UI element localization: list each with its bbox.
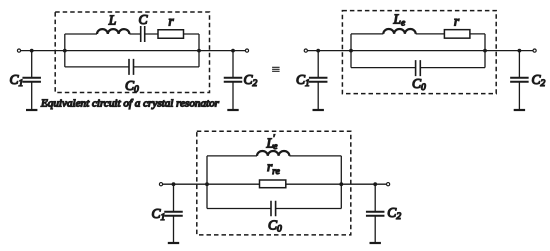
ground (below C2)	[227, 109, 238, 111]
junction: C2 tap	[373, 182, 377, 186]
resistor r	[158, 30, 184, 39]
junction: loop left node	[63, 49, 67, 53]
junction: C1 tap	[30, 49, 34, 53]
wire: bottom branch segments	[65, 66, 199, 68]
svg-text:r: r	[168, 14, 174, 29]
svg-text:L′e: L′e	[266, 133, 278, 152]
terminal (output port, right)	[245, 49, 248, 52]
capacitor C2 (shunt plates)	[224, 78, 243, 82]
wire: C1 vertical leads	[31, 51, 33, 109]
wire: bottom branch segments	[207, 208, 341, 210]
junction: loop right node	[339, 182, 343, 186]
wire: main horizontal node line segments	[163, 183, 386, 185]
wire: main horizontal node line	[21, 50, 245, 52]
inductor L	[97, 29, 129, 34]
junction: loop left node	[349, 49, 353, 53]
capacitor C0 (series plates)	[271, 201, 276, 217]
wire: loop left vertical	[64, 34, 66, 67]
svg-text:C0: C0	[125, 78, 139, 95]
terminal (input port, left)	[304, 49, 307, 52]
svg-text:C1: C1	[152, 206, 166, 223]
capacitor C1 (shunt plates)	[309, 78, 328, 82]
enclosure dashed box	[197, 131, 351, 235]
wire: loop left vertical	[206, 156, 208, 209]
svg-text:C2: C2	[244, 72, 258, 89]
svg-text:C0: C0	[268, 218, 282, 235]
svg-text:rre: rre	[267, 159, 280, 177]
terminal (input port, left)	[159, 183, 162, 186]
junction: C1 tap	[172, 182, 176, 186]
capacitor C0 (series plates)	[416, 60, 421, 76]
capacitor C (series plates)	[141, 26, 145, 42]
junction: C1 tap	[316, 49, 320, 53]
wire: bottom branch segments	[351, 67, 485, 69]
capacitor C1 (shunt plates)	[22, 78, 41, 82]
ground (below C2)	[514, 109, 525, 111]
capacitor C0 (series plates)	[129, 59, 134, 75]
wire: top branch segments	[65, 33, 199, 35]
svg-text:L: L	[108, 12, 117, 27]
wire: top branch segments	[207, 155, 341, 157]
ground (below C2)	[370, 242, 381, 244]
capacitor C2 (shunt plates)	[510, 78, 529, 82]
enclosure dashed box (crystal resonator)	[55, 12, 209, 93]
svg-text:C: C	[138, 12, 148, 27]
wire: loop right vertical	[484, 34, 486, 68]
inductor Le	[383, 29, 415, 34]
svg-text:C0: C0	[412, 76, 426, 93]
junction: C2 tap	[518, 49, 522, 53]
junction: loop right node	[483, 49, 487, 53]
wire: main horizontal node line	[308, 50, 533, 52]
wire: loop left vertical	[350, 34, 352, 68]
svg-text:Equivalent circuit of a crysta: Equivalent circuit of a crystal resonato…	[40, 97, 220, 109]
junction: C2 tap	[231, 49, 235, 53]
terminal (input port, left)	[17, 49, 20, 52]
wire: C1 vertical leads	[173, 184, 175, 242]
svg-text:C1: C1	[296, 72, 310, 89]
wire: loop right vertical	[340, 156, 342, 209]
junction: loop left node	[205, 182, 209, 186]
ground (below C1)	[313, 109, 324, 111]
terminal (output port, right)	[533, 49, 536, 52]
inductor L'e	[257, 151, 289, 156]
svg-text:C2: C2	[532, 72, 546, 89]
enclosure dashed box	[342, 11, 496, 94]
wire: loop right vertical	[198, 34, 200, 67]
ground (below C1)	[168, 242, 179, 244]
svg-text:r: r	[454, 14, 460, 29]
junction: loop right node	[197, 49, 201, 53]
capacitor C1 (shunt plates)	[164, 212, 183, 216]
terminal (output port, right)	[387, 183, 390, 186]
wire: C2 vertical leads	[232, 51, 234, 109]
wire: C2 vertical leads	[374, 184, 376, 242]
wire: C1 vertical leads	[317, 51, 319, 109]
wire: top branch segments	[351, 33, 485, 35]
svg-text:C2: C2	[387, 205, 401, 222]
wire: C2 vertical leads	[518, 51, 520, 109]
svg-text:C1: C1	[10, 72, 24, 89]
capacitor C2 (shunt plates)	[366, 212, 385, 216]
svg-text:Le: Le	[393, 12, 406, 29]
ground (below C1)	[26, 109, 37, 111]
resistor r	[444, 30, 470, 39]
resistor r_re	[260, 180, 286, 188]
equivalence symbol	[272, 67, 280, 71]
